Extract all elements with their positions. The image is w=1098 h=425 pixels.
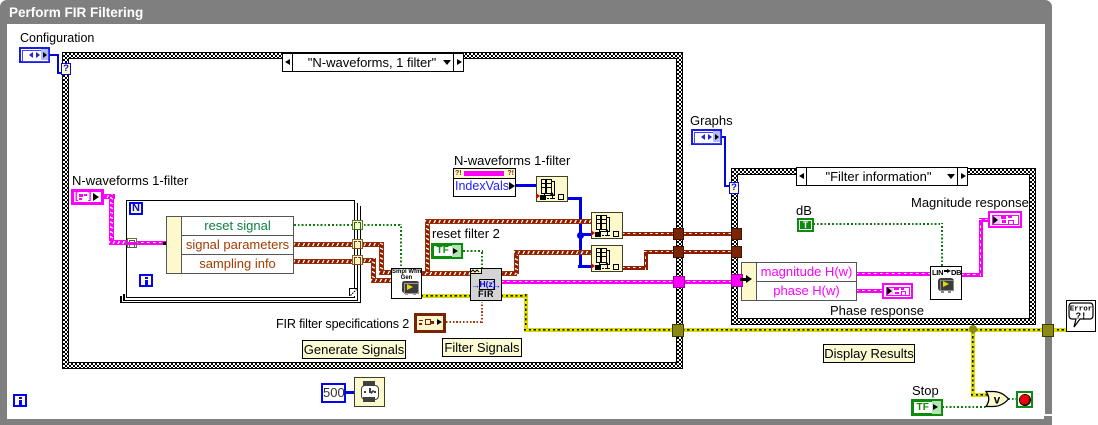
tunnel: case1 right brown 1 <box>673 228 684 240</box>
window title bar <box>0 0 1052 24</box>
blue junction dot <box>577 232 584 239</box>
label N-waveforms 1-filter (left) <box>72 174 188 188</box>
Error ?! icon <box>1066 300 1096 332</box>
tunnel: for loop sampling info <box>352 255 363 265</box>
case2 selector label <box>796 167 968 186</box>
N terminal <box>129 202 143 215</box>
N-waveforms cluster-array control <box>71 189 104 205</box>
wire: reset filter2 green dotted <box>463 250 483 252</box>
wire: reset signal green dotted to SmplWfm <box>360 224 402 226</box>
wire: FIR spec dotted brown <box>446 321 483 323</box>
Stop TF control <box>911 399 943 416</box>
label Display Results <box>823 344 915 363</box>
unbundle arrow <box>163 242 172 245</box>
tunnel: case1 right brown 2 <box>673 246 684 258</box>
wire: FIR out brown <box>501 271 517 276</box>
wire: error yellow main run <box>524 328 1067 332</box>
wire: 500 to wait <box>346 391 355 394</box>
label FIR filter specifications 2 <box>276 317 409 331</box>
unbundle rows <box>181 216 294 274</box>
wire: error yellow SmplWfm to FIR <box>421 294 471 298</box>
tunnel: case2 left brown 2 <box>731 246 742 258</box>
wire: brown riser at x427 <box>425 220 430 273</box>
wire: index node0 out blue <box>567 197 581 200</box>
window i terminal <box>13 394 27 407</box>
unbundle selector column <box>166 216 182 274</box>
for loop main frame <box>126 200 355 298</box>
wire: index1 out brown to case2 <box>622 232 742 236</box>
wire: stop TF to Or <box>942 406 986 408</box>
FIR filter specifications control <box>414 313 446 333</box>
label Graphs <box>690 114 733 128</box>
wire: magenta filtered to case2 <box>501 280 742 284</box>
window left frame <box>0 24 7 419</box>
Phase response indicator <box>882 283 913 299</box>
wire: sampling info brown inside loop <box>294 259 354 264</box>
Magnitude response indicator <box>988 211 1022 228</box>
window title text <box>9 5 143 20</box>
Or gate <box>985 390 1010 408</box>
index array node 2 <box>591 245 623 272</box>
wire: IndexVals blue <box>515 184 537 187</box>
wire: error branch down to Or <box>971 328 975 396</box>
500 constant <box>321 383 346 403</box>
for loop stacked frame 2 <box>123 203 358 301</box>
SmplWfmGen node <box>391 268 422 299</box>
wire: signal parameters to SmplWfm <box>360 242 384 247</box>
wire: LIN->DB out <box>961 273 983 277</box>
wire: sampling info to SmplWfm <box>360 258 376 263</box>
case structure 2 border <box>731 168 1036 325</box>
reset filter 2 TF constant <box>431 243 463 259</box>
wire: magenta thin into unbundle <box>135 241 167 245</box>
Graphs enum control <box>691 129 722 145</box>
wire: error yellow FIR right <box>501 294 528 298</box>
IndexVals control <box>453 168 516 197</box>
wire: SmplWfm output brown to FIR <box>421 271 471 276</box>
case structure 1 interior <box>68 58 677 363</box>
label Stop <box>912 384 939 398</box>
window right frame <box>1045 24 1052 414</box>
tunnel: for loop left auto-index <box>127 238 137 248</box>
tunnel: case2 left magenta <box>731 274 743 287</box>
wire: brown top run to index array 1 <box>425 219 592 224</box>
tunnel: for loop signal parameters <box>352 239 363 249</box>
FIR node <box>470 268 502 301</box>
label Filter Signals <box>442 338 522 357</box>
index array node 1 <box>591 212 623 239</box>
tunnel: case2 left brown 1 <box>731 228 742 240</box>
label Configuration <box>20 31 94 45</box>
label N-waveforms 1-filter (mid) <box>454 154 570 168</box>
index array node 0 <box>536 176 568 202</box>
wait (ms) node <box>354 377 385 407</box>
tunnel: for loop reset signal <box>352 220 363 230</box>
window bottom-right grip <box>1044 416 1052 425</box>
label Generate Signals <box>302 340 406 359</box>
unbundle2 arrow <box>740 278 747 281</box>
wire: signal parameters brown inside loop <box>294 242 354 247</box>
label dB <box>796 204 812 218</box>
wire: reset signal green dotted inside loop <box>294 224 354 226</box>
case1 selector label <box>282 53 464 72</box>
tunnel: window edge error olive <box>1042 324 1054 337</box>
wire: graphs enum to case2 selector <box>717 136 726 138</box>
wire: index2 out brown to case2 <box>622 266 648 270</box>
case structure 1 border <box>62 52 683 369</box>
for loop page curl <box>349 288 357 296</box>
label reset filter 2 <box>432 227 500 241</box>
svg-text:?!: ?! <box>1076 312 1087 322</box>
unbundle2 rows <box>756 262 857 301</box>
LIN->DB node <box>930 266 962 300</box>
label Phase response <box>830 304 924 318</box>
tunnel: case1 selector ? <box>61 63 71 75</box>
error junction dot <box>969 325 977 333</box>
svg-text:v: v <box>994 395 1001 407</box>
dB True constant <box>797 218 814 232</box>
tunnel: case1 right magenta <box>673 276 685 288</box>
tunnel: case2 selector ? <box>729 182 739 194</box>
wire: Configuration enum to case selector <box>49 54 59 56</box>
wire: magnitude to LIN->DB <box>856 272 931 276</box>
i terminal (loop) <box>139 274 153 287</box>
wire: phase to indicator <box>856 289 883 293</box>
wire: dB green dotted <box>813 223 943 225</box>
label Magnitude response <box>911 196 1029 210</box>
Configuration enum constant <box>19 47 50 63</box>
for loop stacked frame 3 <box>120 206 361 303</box>
case structure 2 interior <box>737 174 1030 319</box>
loop stop terminal <box>1016 391 1033 408</box>
unbundle2 selector column <box>741 262 757 301</box>
window bottom frame <box>0 419 1048 425</box>
tunnel: case1 right error olive <box>672 324 684 337</box>
wire: N-waveforms control candy magenta <box>103 194 115 199</box>
wire: Or to stop terminal <box>1008 398 1017 400</box>
